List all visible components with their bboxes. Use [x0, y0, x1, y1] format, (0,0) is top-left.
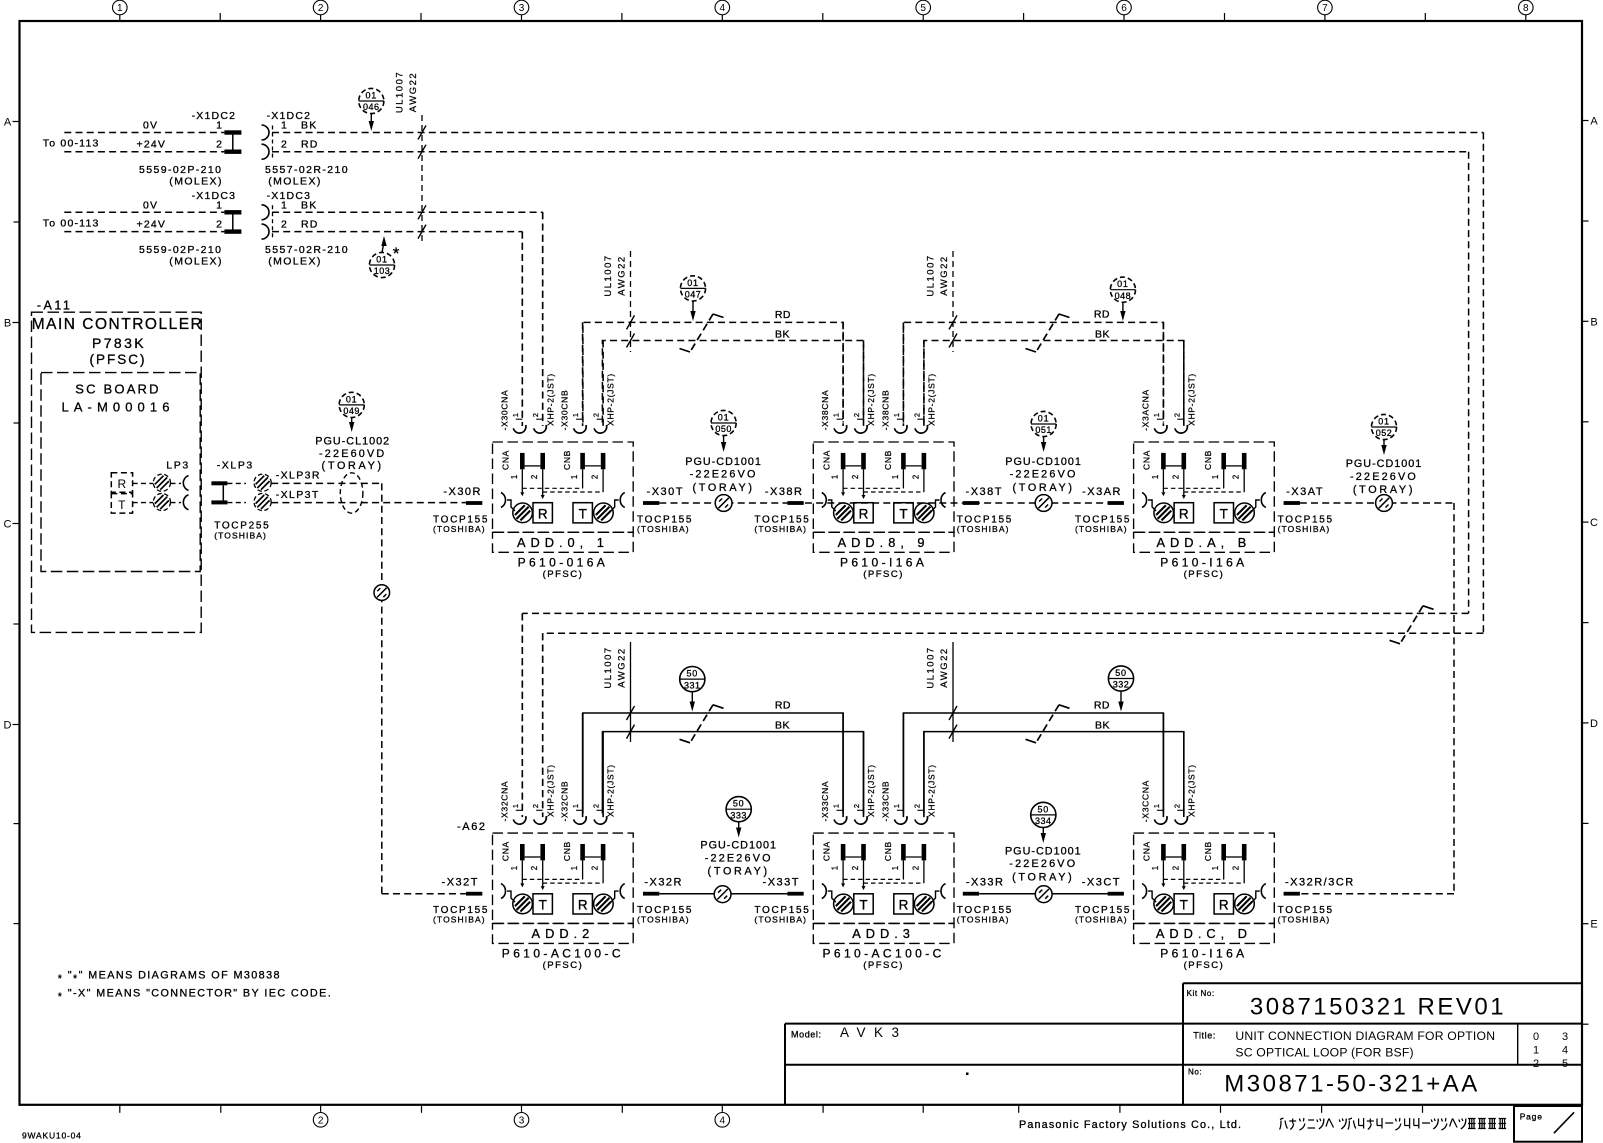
svg-text:2: 2	[530, 866, 539, 870]
svg-text:(TOSHIBA): (TOSHIBA)	[754, 524, 807, 534]
grid row markers left	[4, 117, 20, 924]
svg-text:1: 1	[1211, 475, 1220, 479]
svg-text:CNB: CNB	[883, 841, 893, 861]
svg-text:-X32T: -X32T	[442, 877, 479, 889]
svg-text:XHP-2(JST): XHP-2(JST)	[926, 373, 936, 426]
svg-text:2: 2	[1232, 866, 1241, 870]
svg-text:Kit No:: Kit No:	[1187, 989, 1215, 998]
svg-text:+24V: +24V	[137, 139, 167, 151]
svg-text:CNA: CNA	[821, 450, 831, 470]
break mark bottom bus seg1	[680, 705, 724, 743]
wire X1DC3 pin2 RD to ADD.0,1 CNA pin1	[272, 232, 522, 423]
svg-text:-22E26VO: -22E26VO	[1009, 858, 1077, 870]
svg-text:T: T	[1180, 897, 1188, 912]
svg-text:01: 01	[1038, 413, 1050, 423]
wire spec UL1007 AWG22 marker bottom bus seg2	[925, 642, 957, 742]
grid row markers right	[1582, 116, 1598, 1025]
svg-text:2: 2	[911, 475, 920, 479]
svg-text:AWG22: AWG22	[408, 72, 419, 112]
svg-text:1: 1	[1533, 1045, 1539, 1057]
svg-text:048: 048	[1115, 291, 1132, 301]
svg-text:2: 2	[912, 413, 921, 417]
svg-text:2: 2	[592, 413, 601, 417]
svg-text:01: 01	[687, 278, 699, 288]
svg-text:ADD.3: ADD.3	[852, 926, 915, 941]
svg-text:P610-016A: P610-016A	[518, 555, 609, 569]
svg-text:0: 0	[1533, 1031, 1539, 1043]
main controller -A11 box	[32, 299, 204, 633]
break mark bottom bus seg2	[1026, 705, 1070, 743]
wire -XLP3T to ADD.0,1 X30R	[271, 489, 466, 503]
svg-text:-X38R: -X38R	[765, 486, 804, 498]
grid column markers top	[113, 0, 1534, 21]
svg-text:(TORAY): (TORAY)	[1353, 484, 1415, 496]
svg-text:-X33CNA: -X33CNA	[820, 781, 830, 822]
connector -X1DC3 (5559-02P-210 / 5557-02R-210 MOLEX)	[43, 190, 349, 268]
svg-text:-X30T: -X30T	[647, 486, 684, 498]
port -X38R	[754, 486, 810, 534]
svg-text:P783K: P783K	[92, 335, 146, 351]
svg-text:RD: RD	[301, 219, 319, 231]
svg-text:XHP-2(JST): XHP-2(JST)	[926, 764, 936, 817]
svg-text:SC BOARD: SC BOARD	[75, 382, 161, 397]
optical cable PGU-CL1002-22E60VD (TORAY) ellipse	[315, 436, 390, 514]
svg-text:1: 1	[511, 804, 520, 808]
svg-text:2: 2	[912, 804, 921, 808]
svg-text:UL1007: UL1007	[925, 254, 936, 296]
svg-text:2: 2	[1171, 866, 1180, 870]
footer company names	[1019, 1119, 1242, 1131]
svg-text:XHP-2(JST): XHP-2(JST)	[606, 373, 616, 426]
svg-text:1: 1	[1152, 413, 1161, 417]
svg-text:To 00-113: To 00-113	[43, 138, 100, 150]
svg-text:(TORAY): (TORAY)	[692, 482, 754, 494]
svg-text:9WAKU10-04: 9WAKU10-04	[22, 1131, 82, 1141]
svg-text:ADD.8, 9: ADD.8, 9	[838, 535, 930, 550]
port -X3CT	[1075, 877, 1131, 925]
bus BK top segment1	[602, 329, 863, 423]
svg-text:332: 332	[1113, 680, 1130, 690]
svg-text:2: 2	[852, 804, 861, 808]
svg-text:2: 2	[1172, 804, 1181, 808]
svg-text:-X1DC2: -X1DC2	[267, 110, 312, 122]
svg-text:To 00-113: To 00-113	[43, 217, 100, 229]
svg-text:-X33R: -X33R	[966, 877, 1005, 889]
svg-text:(PFSC): (PFSC)	[543, 569, 584, 580]
svg-text:-X30R: -X30R	[443, 486, 482, 498]
note: asterisk means diagrams of M30838	[58, 970, 281, 986]
wire spec UL1007 AWG22 marker at X1DC wires	[394, 71, 426, 242]
optical wire X32R to X33T (solid)	[659, 893, 787, 895]
svg-text:(TORAY): (TORAY)	[1012, 482, 1074, 494]
bus RD bottom segment1 (ADD.2 CNB to ADD.3 CNA)	[583, 700, 843, 814]
svg-text:1: 1	[1151, 475, 1160, 479]
svg-text:T: T	[899, 506, 907, 521]
svg-text:2: 2	[1232, 475, 1241, 479]
svg-text:50: 50	[1037, 804, 1049, 814]
drawing number M30871-50-321+AA	[966, 1068, 1480, 1098]
svg-text:5557-02R-210: 5557-02R-210	[265, 164, 349, 176]
svg-text:334: 334	[1035, 816, 1052, 826]
svg-text:P610-AC100-C: P610-AC100-C	[823, 946, 945, 960]
svg-text:01: 01	[718, 412, 730, 422]
svg-text:0V: 0V	[143, 120, 158, 132]
svg-text:(MOLEX): (MOLEX)	[268, 176, 322, 188]
svg-text:-22E26VO: -22E26VO	[1010, 469, 1078, 481]
svg-text:2: 2	[591, 866, 600, 870]
svg-text:1: 1	[831, 866, 840, 870]
svg-text:(TOSHIBA): (TOSHIBA)	[1278, 915, 1331, 925]
svg-text:P610-I16A: P610-I16A	[1160, 555, 1247, 569]
svg-text:-X3AR: -X3AR	[1082, 486, 1122, 498]
svg-text:-X33CNB: -X33CNB	[880, 781, 890, 822]
svg-text:2: 2	[281, 219, 287, 231]
svg-text:R: R	[899, 897, 909, 912]
svg-text:R: R	[538, 506, 548, 521]
svg-text:1: 1	[832, 413, 841, 417]
svg-text:R: R	[578, 897, 588, 912]
svg-text:333: 333	[730, 810, 747, 820]
LP3 optical port T	[111, 460, 189, 514]
port -X38T	[957, 486, 1013, 534]
svg-text:R: R	[859, 506, 869, 521]
balloon 50/332	[1108, 666, 1133, 712]
svg-text:R: R	[1179, 506, 1189, 521]
inline optical connector PGU-CD1001 top col2	[1035, 495, 1052, 512]
LP3 optical port R	[111, 473, 188, 493]
svg-text:XHP-2(JST): XHP-2(JST)	[1186, 373, 1196, 426]
SC board box LA-M00016	[41, 373, 200, 572]
svg-text:4: 4	[720, 1115, 726, 1126]
svg-text:BK: BK	[775, 329, 790, 341]
svg-text:CNA: CNA	[501, 841, 511, 861]
label PGU-CD1001 bottom col1 + balloon 50/333	[700, 797, 777, 878]
kit number 3087150321 REV01	[1187, 989, 1506, 1021]
balloon 01/049	[339, 392, 364, 432]
model AVK3	[791, 1025, 908, 1040]
grid column markers bottom	[120, 1105, 1423, 1127]
wire X1DC3 pin1 BK to ADD.0,1 CNA pin2	[272, 212, 543, 422]
port -X32R	[637, 877, 693, 925]
svg-text:AWG22: AWG22	[617, 255, 628, 295]
svg-text:(MOLEX): (MOLEX)	[268, 256, 322, 268]
svg-text:1: 1	[117, 3, 123, 14]
svg-text:*: *	[393, 244, 400, 263]
svg-text:-A11: -A11	[37, 299, 72, 313]
svg-text:RD: RD	[775, 700, 791, 712]
svg-text:CNB: CNB	[562, 450, 572, 470]
svg-text:1: 1	[891, 475, 900, 479]
bus RD top segment1 (ADD.0,1 CNB to ADD.8,9 CNA)	[583, 309, 843, 423]
label PGU-CD1001 top col1 + balloon 01/050	[685, 410, 762, 493]
svg-text:C: C	[4, 519, 12, 531]
svg-text:-22E26VO: -22E26VO	[690, 469, 758, 481]
svg-text:2: 2	[1171, 475, 1180, 479]
connector -XLP3 (TOCP255 TOSHIBA)	[211, 460, 271, 541]
svg-text:(TORAY): (TORAY)	[1012, 871, 1074, 883]
svg-text:1: 1	[511, 413, 520, 417]
svg-text:-X32R: -X32R	[644, 877, 683, 889]
svg-text:-X1DC2: -X1DC2	[192, 110, 237, 122]
svg-text:2: 2	[216, 219, 222, 231]
optical wire X30T to X38R	[659, 502, 1107, 504]
svg-text:2: 2	[591, 475, 600, 479]
svg-text:1: 1	[216, 199, 222, 211]
svg-text:(PFSC): (PFSC)	[863, 960, 904, 971]
svg-text:2: 2	[531, 413, 540, 417]
module ADD.C,D P610-I16A	[1134, 713, 1275, 971]
svg-text:-X3CT: -X3CT	[1082, 877, 1121, 889]
bus RD top segment2 (ADD.8,9 CNB to ADD.A,B CNA)	[903, 309, 1163, 423]
inline optical connector PGU-CD1001 top col3	[1376, 495, 1393, 512]
svg-text:PGU-CD1001: PGU-CD1001	[685, 456, 762, 468]
port -X30T	[637, 486, 693, 534]
svg-text:ADD.C, D: ADD.C, D	[1156, 926, 1252, 941]
svg-text:-X1DC3: -X1DC3	[192, 190, 237, 202]
wire spec UL1007 AWG22 marker top bus seg1	[603, 251, 635, 352]
svg-text:-X32CNB: -X32CNB	[560, 781, 570, 822]
svg-text:Title:: Title:	[1193, 1031, 1216, 1041]
svg-text:-A62: -A62	[457, 821, 487, 833]
svg-text:(MOLEX): (MOLEX)	[169, 176, 223, 188]
wire X1DC2 pin1 BK to ADD.2 CNA pin2	[272, 133, 1483, 814]
label PGU-CD1001 bottom col2 + balloon 50/334	[1005, 802, 1082, 883]
svg-text:XHP-2(JST): XHP-2(JST)	[866, 373, 876, 426]
svg-text:UL1007: UL1007	[394, 71, 405, 113]
svg-text:LP3: LP3	[166, 460, 189, 472]
svg-text:(PFSC): (PFSC)	[863, 569, 904, 580]
svg-text:-XLP3T: -XLP3T	[276, 489, 320, 501]
svg-text:R: R	[117, 477, 126, 491]
svg-text:1: 1	[831, 475, 840, 479]
svg-text:2: 2	[318, 3, 324, 14]
balloon 50/331	[680, 667, 705, 712]
svg-text:4: 4	[720, 3, 726, 14]
svg-text:No:: No:	[1188, 1068, 1202, 1077]
svg-text:XHP-2(JST): XHP-2(JST)	[606, 764, 616, 817]
bus BK bottom segment1	[602, 720, 863, 814]
svg-text:-22E60VD: -22E60VD	[319, 448, 386, 460]
svg-text:CNB: CNB	[883, 450, 893, 470]
module ADD.2 P610-AC100-C	[457, 613, 633, 971]
svg-text:01: 01	[1378, 416, 1390, 426]
svg-text:CNA: CNA	[821, 841, 831, 861]
svg-text:ADD.A, B: ADD.A, B	[1157, 535, 1252, 550]
wire -XLP3R return from ADD.2 X32T	[271, 470, 466, 894]
svg-text:P610-I16A: P610-I16A	[1160, 946, 1247, 960]
inline optical connector PGU-CD1001 bottom col2	[1035, 886, 1052, 903]
svg-text:01: 01	[346, 394, 358, 404]
svg-text:2: 2	[530, 475, 539, 479]
note: -X means connector by IEC code	[58, 988, 332, 1004]
svg-text:-X32R/3CR: -X32R/3CR	[1285, 877, 1355, 889]
svg-text:046: 046	[363, 102, 380, 112]
svg-text:-X3CCNA: -X3CCNA	[1140, 780, 1150, 822]
inline optical connector PGU-CD1001 top col1	[715, 495, 732, 512]
svg-text:AWG22: AWG22	[939, 255, 950, 295]
svg-text:(TOSHIBA): (TOSHIBA)	[433, 915, 486, 925]
break mark top bus seg2	[1026, 314, 1070, 352]
balloon 01/047	[680, 276, 705, 321]
svg-text:1: 1	[510, 866, 519, 870]
svg-text:RD: RD	[1094, 700, 1110, 712]
svg-text:2: 2	[1172, 413, 1181, 417]
svg-text:AVK3: AVK3	[840, 1025, 908, 1040]
svg-text:0V: 0V	[143, 199, 158, 211]
svg-text:2: 2	[851, 866, 860, 870]
svg-text:(TORAY): (TORAY)	[322, 460, 384, 472]
svg-text:1: 1	[510, 475, 519, 479]
svg-text:-22E26VO: -22E26VO	[705, 852, 773, 864]
svg-text:+24V: +24V	[137, 219, 167, 231]
wire spec UL1007 AWG22 marker bottom bus seg1	[603, 642, 635, 742]
svg-text:XHP-2(JST): XHP-2(JST)	[866, 764, 876, 817]
svg-text:-X38T: -X38T	[966, 486, 1003, 498]
svg-text:-XLP3: -XLP3	[217, 460, 254, 472]
svg-text:M30871-50-321+AA: M30871-50-321+AA	[1224, 1071, 1479, 1098]
break mark top bus seg1	[680, 314, 724, 352]
svg-text:LA-M00016: LA-M00016	[61, 400, 174, 415]
title block	[785, 983, 1582, 1105]
svg-text:(PFSC): (PFSC)	[543, 960, 584, 971]
svg-text:D: D	[4, 720, 12, 732]
svg-text:-X1DC3: -X1DC3	[267, 190, 312, 202]
svg-text:CNA: CNA	[1142, 841, 1152, 861]
module ADD.3 P610-AC100-C	[813, 713, 954, 971]
svg-text:-X30CNB: -X30CNB	[560, 390, 570, 431]
svg-text:1: 1	[892, 413, 901, 417]
svg-text:(TOSHIBA): (TOSHIBA)	[214, 531, 267, 541]
svg-text:E: E	[1590, 919, 1597, 931]
balloon 01/048	[1110, 277, 1135, 321]
svg-text:PGU-CD1001: PGU-CD1001	[1005, 845, 1082, 857]
svg-text:CNA: CNA	[1142, 450, 1152, 470]
svg-text:2: 2	[851, 475, 860, 479]
svg-text:XHP-2(JST): XHP-2(JST)	[1186, 764, 1196, 817]
inline optical connector PGU-CD1001 bottom col1	[714, 886, 731, 903]
svg-text:1: 1	[216, 120, 222, 132]
svg-text:3: 3	[519, 1115, 525, 1126]
port -X32R/3CR	[1278, 877, 1355, 925]
svg-text:(PFSC): (PFSC)	[1184, 960, 1225, 971]
svg-text:(MOLEX): (MOLEX)	[169, 256, 223, 268]
svg-text:1: 1	[892, 804, 901, 808]
svg-text:T: T	[539, 897, 547, 912]
svg-text:Page: Page	[1520, 1111, 1543, 1121]
svg-text:3: 3	[1562, 1031, 1568, 1043]
svg-text:P610-AC100-C: P610-AC100-C	[502, 946, 624, 960]
svg-text:2: 2	[911, 866, 920, 870]
svg-text:50: 50	[733, 799, 745, 809]
port -X30R	[433, 486, 489, 534]
svg-text:CNB: CNB	[562, 841, 572, 861]
svg-text:01: 01	[1117, 279, 1129, 289]
svg-text:103: 103	[374, 266, 391, 276]
optical wire X3AT loop to X32R/3CR	[1300, 503, 1454, 894]
module ADD.8,9 P610-I16A	[813, 322, 954, 580]
module ADD.0,1 P610-016A	[493, 212, 634, 580]
svg-text:1: 1	[570, 475, 579, 479]
port -X3AT	[1278, 486, 1334, 534]
svg-text:XHP-2(JST): XHP-2(JST)	[545, 764, 555, 817]
svg-text:A: A	[4, 117, 12, 129]
svg-text:D: D	[1590, 718, 1598, 730]
svg-text:UL1007: UL1007	[603, 646, 614, 688]
svg-text:(TOSHIBA): (TOSHIBA)	[957, 915, 1010, 925]
svg-text:(TORAY): (TORAY)	[708, 866, 770, 878]
svg-text:(TOSHIBA): (TOSHIBA)	[1075, 915, 1128, 925]
svg-text:CNB: CNB	[1203, 841, 1213, 861]
svg-text:RD: RD	[1094, 309, 1110, 321]
svg-text:331: 331	[684, 680, 701, 690]
svg-text:5559-02P-210: 5559-02P-210	[139, 244, 222, 256]
svg-text:XHP-2(JST): XHP-2(JST)	[545, 373, 555, 426]
wire spec UL1007 AWG22 marker top bus seg2	[925, 251, 957, 352]
balloon 01/046	[359, 88, 384, 131]
svg-text:BK: BK	[1095, 720, 1110, 732]
svg-text:01: 01	[376, 254, 388, 264]
svg-text:01: 01	[365, 90, 377, 100]
wire X1DC2 pin2 RD to ADD.2 CNA pin1	[272, 152, 1469, 814]
svg-text:(TOSHIBA): (TOSHIBA)	[754, 915, 807, 925]
svg-text:T: T	[579, 506, 587, 521]
svg-text:AWG22: AWG22	[617, 647, 628, 687]
svg-text:PGU-CD1001: PGU-CD1001	[700, 840, 777, 852]
bus BK top segment2	[924, 329, 1184, 423]
svg-text:(TOSHIBA): (TOSHIBA)	[957, 524, 1010, 534]
svg-text:BK: BK	[1095, 329, 1110, 341]
inline optical connector on XLP3R riser	[374, 585, 390, 601]
svg-text:T: T	[118, 498, 126, 512]
svg-text:1: 1	[570, 866, 579, 870]
svg-text:CNB: CNB	[1203, 450, 1213, 470]
svg-text:R: R	[1219, 897, 1229, 912]
svg-text:1: 1	[832, 804, 841, 808]
balloon 01/103 with asterisk	[369, 236, 399, 278]
svg-text:5: 5	[1562, 1058, 1568, 1070]
break mark loop return lines right	[1390, 606, 1434, 644]
footer japanese company name	[1280, 1118, 1507, 1130]
svg-text:UNIT CONNECTION DIAGRAM FOR OP: UNIT CONNECTION DIAGRAM FOR OPTION	[1235, 1029, 1495, 1043]
svg-text:A: A	[1590, 116, 1598, 128]
svg-text:047: 047	[685, 290, 702, 300]
svg-text:BK: BK	[775, 720, 790, 732]
svg-text:5559-02P-210: 5559-02P-210	[139, 164, 222, 176]
bus BK bottom segment2	[924, 720, 1184, 814]
svg-text:-X38CNB: -X38CNB	[880, 390, 890, 431]
svg-text:049: 049	[343, 406, 360, 416]
svg-text:(TOSHIBA): (TOSHIBA)	[1075, 524, 1128, 534]
svg-text:50: 50	[1115, 668, 1127, 678]
svg-text:1: 1	[1151, 866, 1160, 870]
svg-text:1: 1	[1211, 866, 1220, 870]
svg-text:B: B	[4, 318, 11, 330]
svg-text:3087150321 REV01: 3087150321 REV01	[1250, 994, 1506, 1021]
svg-text:P610-I16A: P610-I16A	[840, 555, 927, 569]
svg-text:(TOSHIBA): (TOSHIBA)	[1278, 524, 1331, 534]
svg-text:2: 2	[216, 139, 222, 151]
connector -X1DC2 (5559-02P-210 / 5557-02R-210 MOLEX)	[43, 110, 349, 188]
svg-text:-X3AT: -X3AT	[1286, 486, 1324, 498]
svg-text:1: 1	[571, 804, 580, 808]
svg-text:PGU-CL1002: PGU-CL1002	[315, 436, 390, 448]
svg-text:50: 50	[686, 669, 698, 679]
svg-text:2: 2	[1533, 1058, 1539, 1070]
svg-text:2: 2	[318, 1115, 324, 1126]
svg-text:RD: RD	[301, 139, 319, 151]
svg-text:2: 2	[531, 804, 540, 808]
svg-text:2: 2	[281, 139, 287, 151]
